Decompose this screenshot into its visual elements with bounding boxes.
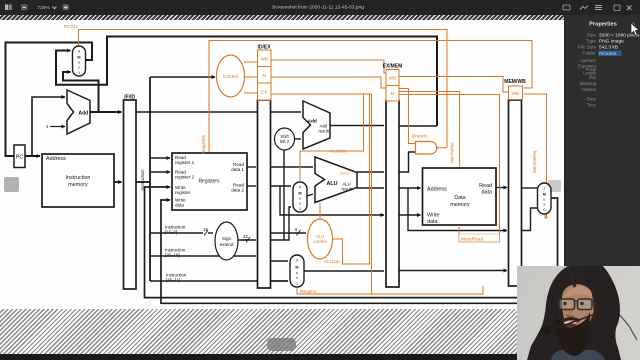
svg-text:Add: Add [308, 119, 317, 125]
svg-text:WB: WB [512, 91, 519, 96]
svg-text:PC: PC [16, 155, 24, 161]
svg-text:1: 1 [543, 187, 545, 191]
svg-text:M: M [543, 193, 546, 197]
svg-text:data: data [175, 203, 184, 208]
svg-text:PCSrc: PCSrc [64, 24, 78, 30]
svg-text:Screenshot from 2020-11-11 12-: Screenshot from 2020-11-11 12-45-03.png [272, 5, 364, 11]
svg-text:542.3 kB: 542.3 kB [599, 45, 618, 51]
svg-text:register 1: register 1 [175, 160, 195, 165]
svg-text:u: u [78, 61, 80, 65]
svg-text:Properties: Properties [589, 21, 617, 27]
svg-text:data: data [427, 219, 438, 225]
svg-text:EX: EX [261, 90, 267, 95]
svg-text:Address: Address [427, 187, 447, 193]
svg-text:MEM/WB: MEM/WB [504, 79, 526, 85]
svg-text:ALU: ALU [316, 234, 325, 239]
svg-text:result: result [319, 129, 330, 134]
svg-text:M: M [77, 56, 80, 60]
svg-text:1: 1 [299, 207, 301, 211]
svg-text:data 2: data 2 [231, 188, 244, 193]
svg-text:WB: WB [389, 76, 396, 81]
svg-text:3200 × 1080 pixels: 3200 × 1080 pixels [599, 33, 640, 39]
svg-text:M: M [295, 266, 298, 270]
svg-text:Instruction: Instruction [140, 169, 145, 191]
svg-text:Branch: Branch [412, 134, 428, 140]
svg-text:WB: WB [261, 57, 268, 62]
svg-text:MemRead: MemRead [461, 237, 483, 243]
svg-text:data 1: data 1 [231, 167, 244, 172]
svg-text:Instruction: Instruction [66, 175, 91, 181]
svg-text:739%: 739% [37, 5, 50, 11]
svg-text:Add: Add [79, 111, 89, 117]
svg-text:[20–16]: [20–16] [165, 253, 180, 258]
svg-text:Metering: Metering [580, 81, 597, 86]
svg-text:PNG image: PNG image [599, 39, 624, 45]
svg-text:Camera: Camera [581, 87, 597, 92]
svg-text:ALUOp: ALUOp [324, 259, 340, 265]
svg-text:File Size: File Size [578, 45, 597, 51]
svg-text:u: u [299, 197, 301, 201]
svg-text:memory: memory [450, 202, 470, 208]
svg-text:Read: Read [479, 183, 492, 189]
svg-text:MemWrite: MemWrite [450, 142, 455, 163]
svg-text:memory: memory [68, 182, 88, 188]
svg-text:Folder: Folder [582, 51, 596, 57]
svg-text:Write: Write [427, 213, 439, 219]
svg-text:left 2: left 2 [280, 139, 290, 144]
svg-text:RegWrite: RegWrite [201, 134, 206, 154]
svg-text:u: u [543, 198, 545, 202]
svg-text:[15–0]: [15–0] [165, 230, 177, 235]
svg-text:x: x [299, 202, 301, 206]
svg-text:ISO: ISO [589, 75, 597, 80]
svg-text:Aperture: Aperture [580, 58, 597, 63]
svg-text:[15–11]: [15–11] [166, 278, 180, 283]
svg-text:Zero: Zero [340, 171, 350, 176]
svg-text:ID/EX: ID/EX [257, 45, 271, 51]
svg-text:result: result [342, 187, 353, 192]
svg-text:1: 1 [78, 71, 80, 75]
svg-text:x: x [296, 276, 298, 280]
svg-text:register: register [175, 190, 191, 195]
svg-text:extend: extend [220, 242, 234, 247]
svg-text:Date: Date [587, 97, 597, 102]
svg-text:Size: Size [587, 33, 597, 39]
svg-text:register 2: register 2 [175, 175, 195, 180]
svg-text:IF/ID: IF/ID [124, 95, 135, 101]
svg-text:MemtoReg: MemtoReg [532, 150, 537, 173]
svg-text:control: control [313, 239, 326, 244]
svg-text:Control: Control [223, 74, 238, 80]
svg-text:Type: Type [586, 39, 597, 45]
svg-text:EX/MEM: EX/MEM [383, 64, 403, 70]
svg-text:u: u [296, 271, 298, 275]
svg-text:x: x [543, 203, 545, 207]
svg-text:x: x [78, 66, 80, 70]
svg-text:Time: Time [587, 103, 597, 108]
svg-text:Data: Data [454, 195, 465, 201]
svg-text:M: M [262, 73, 266, 78]
svg-text:0: 0 [78, 50, 80, 54]
svg-text:RegDst: RegDst [300, 289, 317, 295]
svg-text:6: 6 [295, 227, 298, 232]
svg-text:ALUSrc: ALUSrc [330, 149, 347, 155]
svg-text:Address: Address [46, 156, 66, 162]
svg-text:1: 1 [296, 282, 298, 286]
svg-text:Sign: Sign [222, 236, 232, 241]
svg-text:0: 0 [296, 259, 298, 263]
svg-text:ALU: ALU [327, 181, 338, 187]
svg-text:data: data [482, 190, 493, 196]
svg-text:32: 32 [243, 234, 248, 239]
svg-text:4: 4 [46, 124, 49, 129]
svg-text:0: 0 [299, 186, 301, 190]
svg-text:M: M [298, 192, 301, 196]
svg-text:0: 0 [543, 208, 545, 212]
svg-text:M: M [391, 91, 395, 96]
svg-text:Pictures: Pictures [599, 51, 617, 57]
svg-text:Registers: Registers [198, 179, 220, 185]
